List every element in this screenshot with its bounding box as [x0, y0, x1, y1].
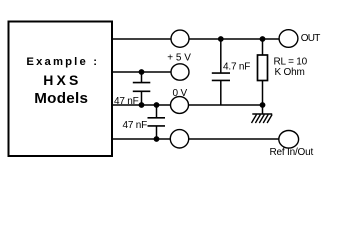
junction node: 0V line / ground: [260, 102, 266, 108]
connector OUT (circle): [279, 30, 298, 48]
junction node: 0V line / capacitor C2: [154, 102, 160, 108]
wire: 0V line from P3 to ground node: [188, 104, 261, 106]
svg-text:Models: Models: [34, 90, 88, 107]
svg-text:OUT: OUT: [301, 33, 320, 44]
connector Ref In/Out (circle): [279, 131, 299, 149]
wire: box to OUT terminal circle (net OUT, y=39): [111, 38, 172, 40]
wire: OUT line from P1 to OUT connector: [189, 38, 280, 40]
terminal circle P3 (0V): [171, 97, 189, 114]
svg-text:RL = 10: RL = 10: [274, 57, 308, 68]
junction node: Ref line / capacitor C2: [154, 136, 160, 142]
capacitor C1 47nF (between +5V and 0V): [133, 72, 151, 105]
svg-text:HXS: HXS: [43, 72, 81, 88]
terminal circle P1 on OUT line: [171, 30, 189, 47]
junction node: 0V line / capacitor C1: [139, 102, 145, 108]
wire: Ref line from P4 to Ref connector: [189, 138, 280, 140]
resistor RL 10 kOhm: [258, 39, 268, 105]
svg-text:0 V: 0 V: [173, 88, 188, 99]
wire: box to 0V terminal (y=105): [111, 104, 171, 106]
svg-text:+ 5 V: + 5 V: [167, 53, 191, 64]
wire: box to +5V terminal (y=72): [111, 71, 172, 73]
junction node: OUT line / 4.7nF capacitor: [218, 36, 224, 42]
capacitor C3 4.7nF (OUT to 0V): [212, 39, 230, 105]
svg-text:47 nF: 47 nF: [123, 120, 148, 131]
terminal circle P4 on Ref line: [170, 130, 188, 148]
wire: box to Ref terminal (y=139): [111, 138, 171, 140]
svg-text:Example :: Example :: [26, 56, 99, 68]
junction node: +5V line / capacitor C1: [139, 69, 145, 75]
svg-text:K Ohm: K Ohm: [275, 67, 305, 78]
svg-text:4.7 nF: 4.7 nF: [223, 62, 250, 73]
terminal circle P2 (+5V supply): [171, 64, 189, 80]
device box U1 (Example HXS Models): [9, 22, 113, 157]
svg-text:Ref In/Out: Ref In/Out: [270, 147, 314, 158]
junction node: OUT line / load resistor RL: [260, 36, 266, 42]
ground symbol (chassis): [252, 105, 273, 123]
capacitor C2 47nF (between 0V and Ref line): [148, 105, 166, 139]
